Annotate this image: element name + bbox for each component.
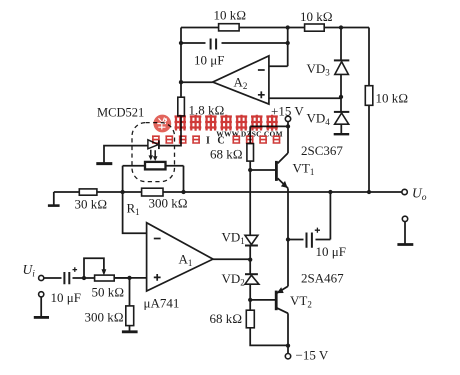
svg-text:300 kΩ: 300 kΩ <box>149 196 188 211</box>
wire cap to pot <box>70 277 95 279</box>
wire VD1 to VD2 <box>249 245 251 274</box>
terminal Ui ground <box>39 292 44 297</box>
resistor 300k parallel <box>142 188 163 196</box>
bar VD4 end <box>334 133 350 135</box>
wire 30k left bend to ground <box>53 192 55 205</box>
wire main output line <box>54 191 402 193</box>
diode VD2 <box>245 274 259 284</box>
svg-text:μA741: μA741 <box>144 296 180 311</box>
terminal ground right <box>402 216 407 221</box>
svg-text:Uo: Uo <box>412 186 427 204</box>
svg-text:10 kΩ: 10 kΩ <box>300 9 333 24</box>
wire VT2 collector column <box>287 313 289 345</box>
wire emitter node to VT2 <box>287 240 289 287</box>
wire pot to plus node <box>114 277 129 279</box>
svg-text:50 kΩ: 50 kΩ <box>92 285 125 300</box>
wire output ground stub <box>404 222 406 244</box>
optocoupler dashed outline MCD521 <box>132 123 175 182</box>
svg-text:68 kΩ: 68 kΩ <box>210 311 243 326</box>
wire VT2 base <box>250 299 276 301</box>
svg-text:−15 V: −15 V <box>296 348 329 363</box>
svg-text:VT1: VT1 <box>293 161 315 178</box>
svg-text:2SC367: 2SC367 <box>301 143 343 158</box>
wire node to VD4 <box>340 97 342 112</box>
wire A2 inverting stub <box>269 65 288 67</box>
svg-text:10 μF: 10 μF <box>194 53 224 68</box>
resistor 50k pot body <box>95 275 115 281</box>
diode VD4 <box>334 112 349 124</box>
svg-text:R1: R1 <box>127 201 140 218</box>
wire 300k lower column <box>129 278 131 331</box>
op-amp A2 <box>213 56 269 104</box>
wire plus15 rail <box>250 125 288 127</box>
wire VD4 anode stub <box>340 124 342 133</box>
wire output cap riser <box>329 192 331 240</box>
svg-text:VD4: VD4 <box>307 111 331 128</box>
transistor VT1 <box>276 153 288 188</box>
arrow pot wiper <box>102 270 106 275</box>
wire VD3 column top <box>340 28 342 61</box>
resistor 1.8k <box>178 97 185 116</box>
diode VD1 <box>245 235 258 245</box>
svg-text:Ui: Ui <box>23 262 36 280</box>
resistor 10k feedback <box>219 24 240 31</box>
svg-text:VD2: VD2 <box>222 271 245 288</box>
terminal Uo <box>402 189 407 194</box>
wire LED anode to ground <box>104 146 148 163</box>
svg-text:30 kΩ: 30 kΩ <box>75 197 108 212</box>
watermark logo disc <box>153 115 171 133</box>
ground 300k <box>122 330 138 333</box>
LED of optocoupler <box>148 140 159 161</box>
svg-text:IC: IC <box>206 136 232 147</box>
wire minus15 stub <box>287 345 289 353</box>
svg-text:68 kΩ: 68 kΩ <box>210 147 243 162</box>
resistor 68k upper <box>247 144 254 162</box>
resistor 10k right vertical <box>365 86 373 106</box>
ground output <box>397 243 413 246</box>
transistor VT2 <box>276 286 288 313</box>
wire plus15 terminal stub <box>287 122 289 153</box>
capacitor C1 10uF input <box>62 267 78 285</box>
terminal plus15 <box>285 116 290 121</box>
terminal minus15 <box>285 354 290 359</box>
resistor 68k lower <box>246 310 254 328</box>
wire A1 noninverting input <box>114 277 146 279</box>
wire VD3 to node <box>340 75 342 97</box>
wire cap C2 row <box>181 42 288 44</box>
wire A2 noninverting stub to VD3 VD4 node <box>269 97 341 99</box>
wire pot wiper loop <box>84 258 104 278</box>
svg-text:VD3: VD3 <box>307 61 331 78</box>
wire Ui ground stub <box>40 297 42 316</box>
wire 68k lower to bottom <box>250 328 288 346</box>
wire parallel left vertical <box>122 166 124 192</box>
svg-text:VT2: VT2 <box>290 293 312 310</box>
wire inverting node column <box>287 28 289 67</box>
wire output cap row <box>288 239 330 241</box>
wire 1.8k to LED bend <box>159 116 181 146</box>
svg-text:1.8 kΩ: 1.8 kΩ <box>189 103 225 118</box>
watermark group <box>152 115 283 147</box>
svg-text:MCD521: MCD521 <box>97 106 144 120</box>
wire left column A2 output node <box>180 28 182 98</box>
watermark small cjk row <box>152 136 200 144</box>
wire VT1 base <box>250 169 276 171</box>
capacitor C2 10uF top <box>206 36 222 50</box>
op-amp A1 <box>147 223 213 291</box>
wire VT1 emitter column <box>287 188 289 239</box>
wire 68k upper column <box>249 126 251 235</box>
terminal Ui <box>39 275 44 280</box>
svg-text:VD1: VD1 <box>222 230 245 247</box>
wire top feedback line A2 <box>181 27 369 29</box>
wire VD2 to VT2 base node <box>249 284 251 310</box>
ground 30k <box>48 204 60 207</box>
wire Ui to cap <box>44 277 64 279</box>
svg-text:10 μF: 10 μF <box>51 290 81 305</box>
wire A2 output <box>181 81 213 83</box>
svg-text:10 kΩ: 10 kΩ <box>376 91 409 106</box>
watermark big text <box>175 115 278 131</box>
wire right 10k column <box>368 28 370 193</box>
wire photoresistor row <box>123 165 184 167</box>
resistor 30k <box>79 189 97 195</box>
wire A1 output <box>213 258 250 260</box>
svg-text:10 kΩ: 10 kΩ <box>214 8 247 23</box>
resistor 300k lower vertical <box>126 306 134 326</box>
svg-text:10 μF: 10 μF <box>316 244 346 259</box>
capacitor C3 10uF output <box>304 228 321 248</box>
wire A1 inverting branch <box>123 192 147 233</box>
diode VD3 <box>334 60 349 74</box>
svg-text:300 kΩ: 300 kΩ <box>85 310 124 325</box>
wire parallel right vertical <box>183 166 185 192</box>
photoresistor R1 body <box>145 162 166 170</box>
ground Ui <box>34 316 49 319</box>
svg-text:2SA467: 2SA467 <box>301 271 344 286</box>
ground opto <box>96 162 112 165</box>
resistor 10k second <box>305 24 325 31</box>
